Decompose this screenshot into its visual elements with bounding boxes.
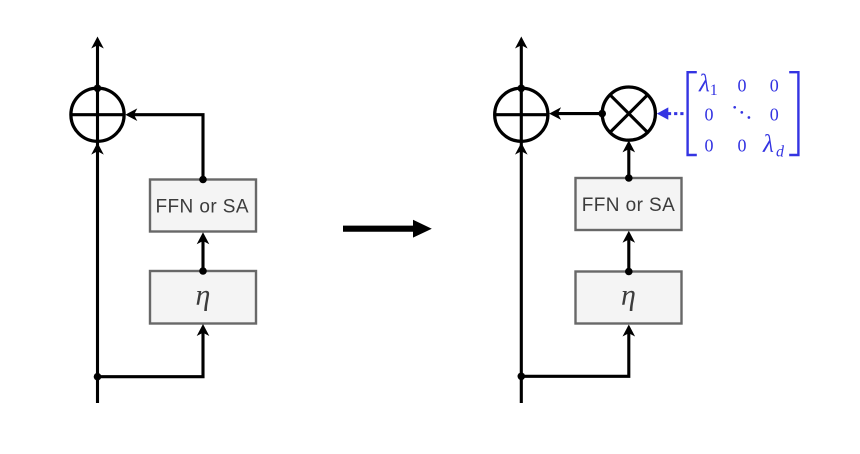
adder U2: plus circle (right) — [495, 88, 548, 141]
svg-text:0: 0 — [770, 76, 779, 96]
wire: feedback from FFN box top up and left to adder — [129, 115, 203, 180]
node: bottom branch junction (right) — [518, 373, 526, 381]
node: bottom branch junction (left) — [94, 373, 102, 381]
node: junction on FFN box top (right) — [625, 174, 633, 182]
arrowhead: right top output arrow — [515, 37, 528, 49]
matrix: right bracket — [789, 72, 798, 155]
svg-text:FFN or SA: FFN or SA — [155, 197, 249, 218]
arrowhead: left top output arrow — [91, 37, 104, 49]
arrowhead: into eta box bottom (right) — [623, 325, 636, 337]
svg-text:d: d — [776, 143, 785, 160]
box: eta (right) — [576, 272, 682, 324]
arrowhead: feedback into adder right side — [125, 108, 137, 121]
wire: eta box to FFN box (left) — [201, 237, 204, 271]
svg-text:η: η — [196, 278, 211, 311]
node: junction on FFN box top (left) — [199, 176, 207, 184]
arrowhead: into adder from below — [91, 143, 104, 155]
wire: FFN box top to multiplier bottom (right) — [627, 145, 630, 178]
arrowhead: into right adder right side — [549, 107, 561, 120]
svg-text:0: 0 — [705, 136, 714, 156]
wire: multiplier to adder — [553, 112, 602, 115]
box: eta (left) — [150, 271, 256, 324]
matrix: left bracket — [688, 72, 697, 155]
node: junction on eta box top (right) — [625, 268, 633, 276]
svg-text:0: 0 — [738, 76, 747, 96]
matrix: diagonal dots — [733, 106, 736, 109]
wire: multiplier X diagonal 1 — [610, 95, 648, 133]
svg-text:1: 1 — [710, 82, 718, 99]
adder U1: plus circle — [71, 88, 124, 141]
wire: left main vertical line — [96, 41, 99, 403]
arrowhead: into right adder from below — [515, 143, 528, 155]
svg-text:0: 0 — [770, 105, 779, 125]
node: junction above adder — [94, 85, 102, 93]
box: FFN or SA (right) — [576, 178, 682, 230]
svg-text:η: η — [621, 278, 636, 311]
wire: multiplier X diagonal 2 — [610, 95, 648, 133]
wire: blue dotted arrow from matrix to multiplier — [666, 112, 684, 115]
arrowhead: into FFN box bottom (left) — [197, 232, 210, 244]
node: junction at multiplier left edge — [598, 110, 606, 118]
wire: bottom branch to eta input (right) — [521, 329, 629, 377]
wire: plus horizontal bar (right) — [495, 113, 548, 116]
svg-text:FFN or SA: FFN or SA — [582, 195, 676, 216]
arrowhead: into eta box bottom (left) — [197, 324, 210, 336]
multiplier U3: times circle — [602, 87, 655, 140]
arrowhead: blue dotted arrow head — [657, 107, 669, 119]
node: junction on eta box top (left) — [199, 267, 207, 275]
svg-text:0: 0 — [705, 105, 714, 125]
wire: plus horizontal bar — [71, 113, 124, 116]
wire: eta box to FFN box (right) — [627, 236, 630, 272]
svg-text:0: 0 — [738, 136, 747, 156]
arrowhead: into FFN box bottom (right) — [623, 231, 636, 243]
wire: bottom branch to eta input (left) — [98, 329, 204, 377]
box: FFN or SA (left) — [150, 180, 256, 232]
node: junction above right adder — [518, 85, 526, 93]
svg-text:λ: λ — [762, 131, 774, 158]
big middle arrow — [343, 220, 432, 238]
svg-text:λ: λ — [698, 70, 710, 97]
arrowhead: into multiplier bottom — [623, 140, 636, 152]
wire: right main vertical line — [520, 41, 523, 403]
